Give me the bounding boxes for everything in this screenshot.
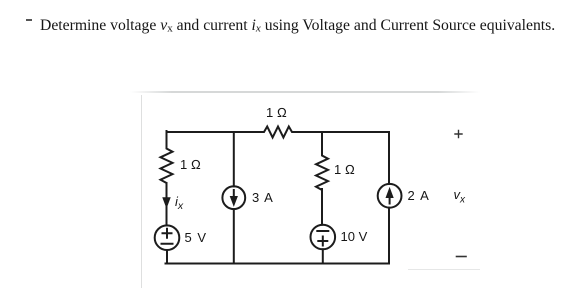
faint scan artifact line bottom right [408, 269, 480, 270]
node minus sign of vx [457, 256, 467, 258]
faint scan artifact line [141, 95, 143, 288]
label I2 value 2 A [408, 188, 430, 203]
resistor R2 1ohm top [261, 127, 294, 138]
label I1 value 3 A [252, 190, 273, 205]
wire 3A branch bottom [233, 209, 235, 263]
wire between R3 and 10V source [321, 189, 323, 225]
wire above 5V source [166, 206, 168, 225]
svg-text:5 V: 5 V [185, 230, 207, 245]
wire 10V branch top [321, 132, 323, 153]
wire below 5V source [166, 250, 168, 264]
svg-text:10 V: 10 V [341, 229, 368, 244]
svg-text:vx: vx [454, 187, 467, 206]
wire top-right segment [293, 131, 389, 133]
svg-text:1 Ω: 1 Ω [334, 162, 355, 177]
voltage source V1 5V [155, 225, 180, 250]
label V2 value 10 V [341, 229, 368, 244]
node label vx [454, 187, 467, 206]
label R1 value 1 ohm [180, 157, 201, 172]
wire left-top [166, 131, 168, 146]
node plus sign of vx [455, 131, 462, 138]
wire bottom [166, 263, 390, 265]
svg-text:2 A: 2 A [408, 188, 430, 203]
wire 2A branch top [388, 132, 390, 184]
wire left-mid with current arrow ix [163, 183, 170, 207]
svg-text:3 A: 3 A [252, 190, 273, 205]
label R2 value 1 ohm [266, 105, 287, 120]
wire 2A branch bottom [388, 208, 390, 264]
faint scan artifact horizontal line [130, 91, 480, 93]
wire 3A branch top [233, 132, 235, 186]
svg-text:ix: ix [175, 194, 184, 212]
superscript tick mark [26, 19, 32, 21]
wire below 10V source [322, 249, 324, 263]
resistor R1 1ohm left [161, 146, 173, 185]
resistor R3 1ohm right-middle [316, 153, 328, 192]
current source I1 3A (arrow down) [222, 186, 245, 209]
current source I2 2A (arrow up) [378, 184, 402, 208]
svg-text:1 Ω: 1 Ω [180, 157, 201, 172]
label current ix [175, 194, 184, 212]
voltage source V2 10V (minus top, plus bottom) [311, 225, 336, 250]
wire top-left segment [167, 131, 262, 133]
label R3 value 1 ohm [334, 162, 355, 177]
svg-text:1 Ω: 1 Ω [266, 105, 287, 120]
problem statement text [40, 17, 555, 35]
label V1 value 5 V [185, 230, 207, 245]
